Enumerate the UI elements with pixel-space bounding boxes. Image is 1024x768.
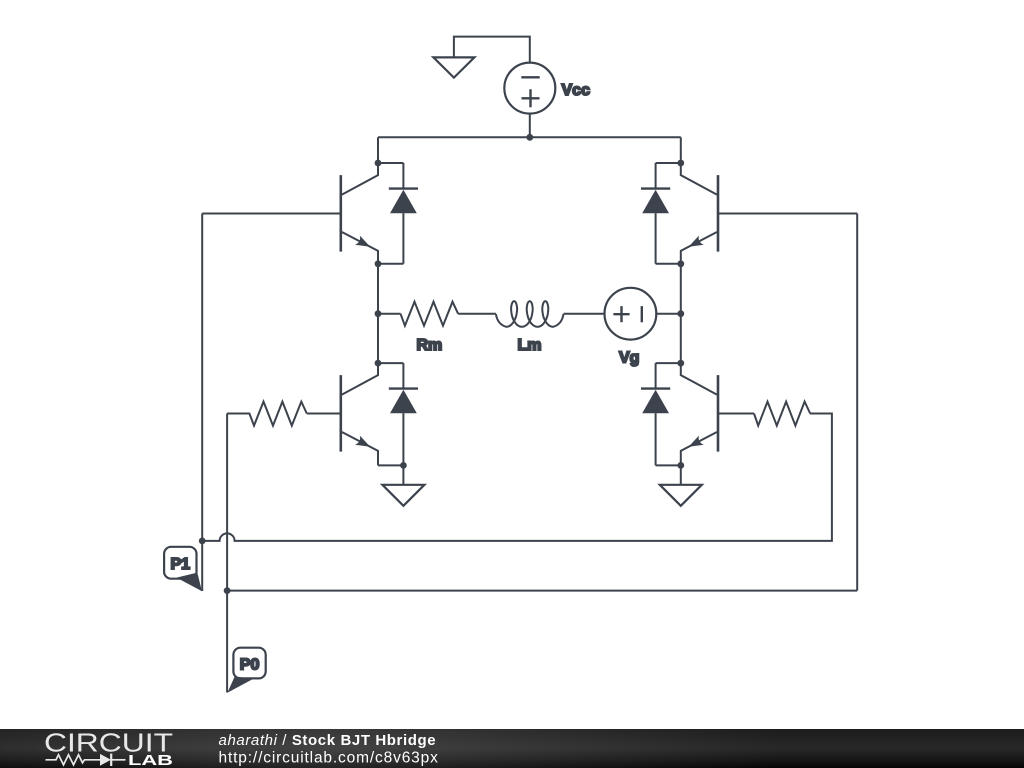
wire right collector drop — [680, 137, 682, 163]
voltage source Vcc — [504, 63, 555, 114]
wire Q3 emitter jog — [378, 464, 403, 466]
inductor Lm — [496, 301, 564, 327]
transistor Q4 (bottom-right NPN) — [681, 363, 718, 465]
svg-text:Vcc: Vcc — [562, 82, 591, 99]
wire top rail — [378, 136, 681, 138]
node P0 branch junction — [224, 587, 231, 594]
svg-text:aharathi / Stock BJT Hbridge: aharathi / Stock BJT Hbridge — [219, 732, 437, 749]
resistor Rm — [401, 302, 459, 326]
svg-text:LAB: LAB — [128, 753, 173, 768]
svg-text:Lm: Lm — [518, 337, 542, 354]
ground (below Q3) — [382, 465, 424, 505]
label Vcc — [562, 82, 591, 99]
voltage source Vg — [605, 288, 657, 340]
wire P0 left vertical — [226, 414, 228, 693]
wire right output vertical — [680, 264, 682, 363]
wire R1 to Q3 base — [307, 413, 340, 415]
svg-text:Vg: Vg — [619, 350, 639, 367]
logo schematic squiggle (resistor + diode) — [46, 754, 126, 766]
resistor R1 (base, bottom-left) — [227, 402, 307, 426]
node Q2 collector junction — [677, 160, 684, 167]
diode D1 (top-left) — [389, 163, 418, 264]
wire left collector drop — [377, 137, 379, 163]
node Q4 collector junction — [677, 360, 684, 367]
wire mid-left lead — [378, 313, 401, 315]
footer title text — [219, 732, 439, 767]
diode D4 (bottom-right) — [641, 363, 670, 465]
wire jog to D3 — [378, 362, 403, 364]
node Q4 emitter junction — [677, 462, 684, 469]
wire Vg to right vertical — [656, 313, 681, 315]
label Vg — [619, 350, 639, 367]
wire P0 rail — [227, 590, 857, 592]
svg-text:Rm: Rm — [417, 337, 443, 354]
ground (below Q4) — [660, 465, 702, 505]
transistor Q1 (top-left NPN) — [341, 163, 378, 264]
footer bar — [0, 729, 1024, 768]
node Q2 emitter junction — [677, 260, 684, 267]
svg-text:http://circuitlab.com/c8v63px: http://circuitlab.com/c8v63px — [219, 750, 439, 767]
node Q3 emitter junction — [400, 462, 407, 469]
wire Q2 base lead — [718, 213, 857, 215]
node Q1 emitter junction — [375, 260, 382, 267]
node P1 branch junction — [199, 538, 206, 545]
wire D1 bottom jog — [378, 263, 403, 265]
diode D3 (bottom-left) — [389, 363, 418, 465]
node right mid junction — [677, 310, 684, 317]
wire Q1 base lead — [202, 213, 339, 215]
ground (top, at Vcc negative terminal) — [433, 37, 529, 78]
logo CIRCUIT LAB — [44, 727, 173, 768]
wire jog to D4 — [656, 362, 681, 364]
diode D2 (top-right) — [641, 163, 670, 264]
wire jog to D2 — [656, 162, 681, 164]
label Rm — [417, 337, 443, 354]
wire P1 rail with hop over P0 wire — [202, 414, 832, 541]
flag P0 — [227, 648, 265, 693]
wire Vcc to top rail — [529, 114, 531, 138]
svg-text:P1: P1 — [171, 556, 191, 573]
wire D4 bottom jog — [656, 464, 681, 466]
transistor Q3 (bottom-left NPN) — [341, 363, 378, 465]
wire D2 bottom jog — [656, 263, 681, 265]
resistor R2 (base, bottom-right) — [754, 402, 810, 426]
wire P1 left vertical — [201, 214, 203, 592]
node Q3 collector junction — [375, 360, 382, 367]
wire R2 to Q4 base — [718, 413, 754, 415]
wire Rm to Lm — [458, 313, 496, 315]
label Lm — [518, 337, 542, 354]
node junction on top rail — [526, 134, 533, 141]
flag P1 — [164, 547, 202, 591]
wire left output vertical — [377, 264, 379, 363]
svg-text:P0: P0 — [240, 656, 260, 673]
wire jog to D1 — [378, 162, 403, 164]
transistor Q2 (top-right NPN) — [681, 163, 718, 264]
wire Lm to Vg — [564, 313, 605, 315]
node left mid junction — [375, 310, 382, 317]
node Q1 collector junction — [375, 160, 382, 167]
wire P0 right vertical — [856, 214, 858, 591]
